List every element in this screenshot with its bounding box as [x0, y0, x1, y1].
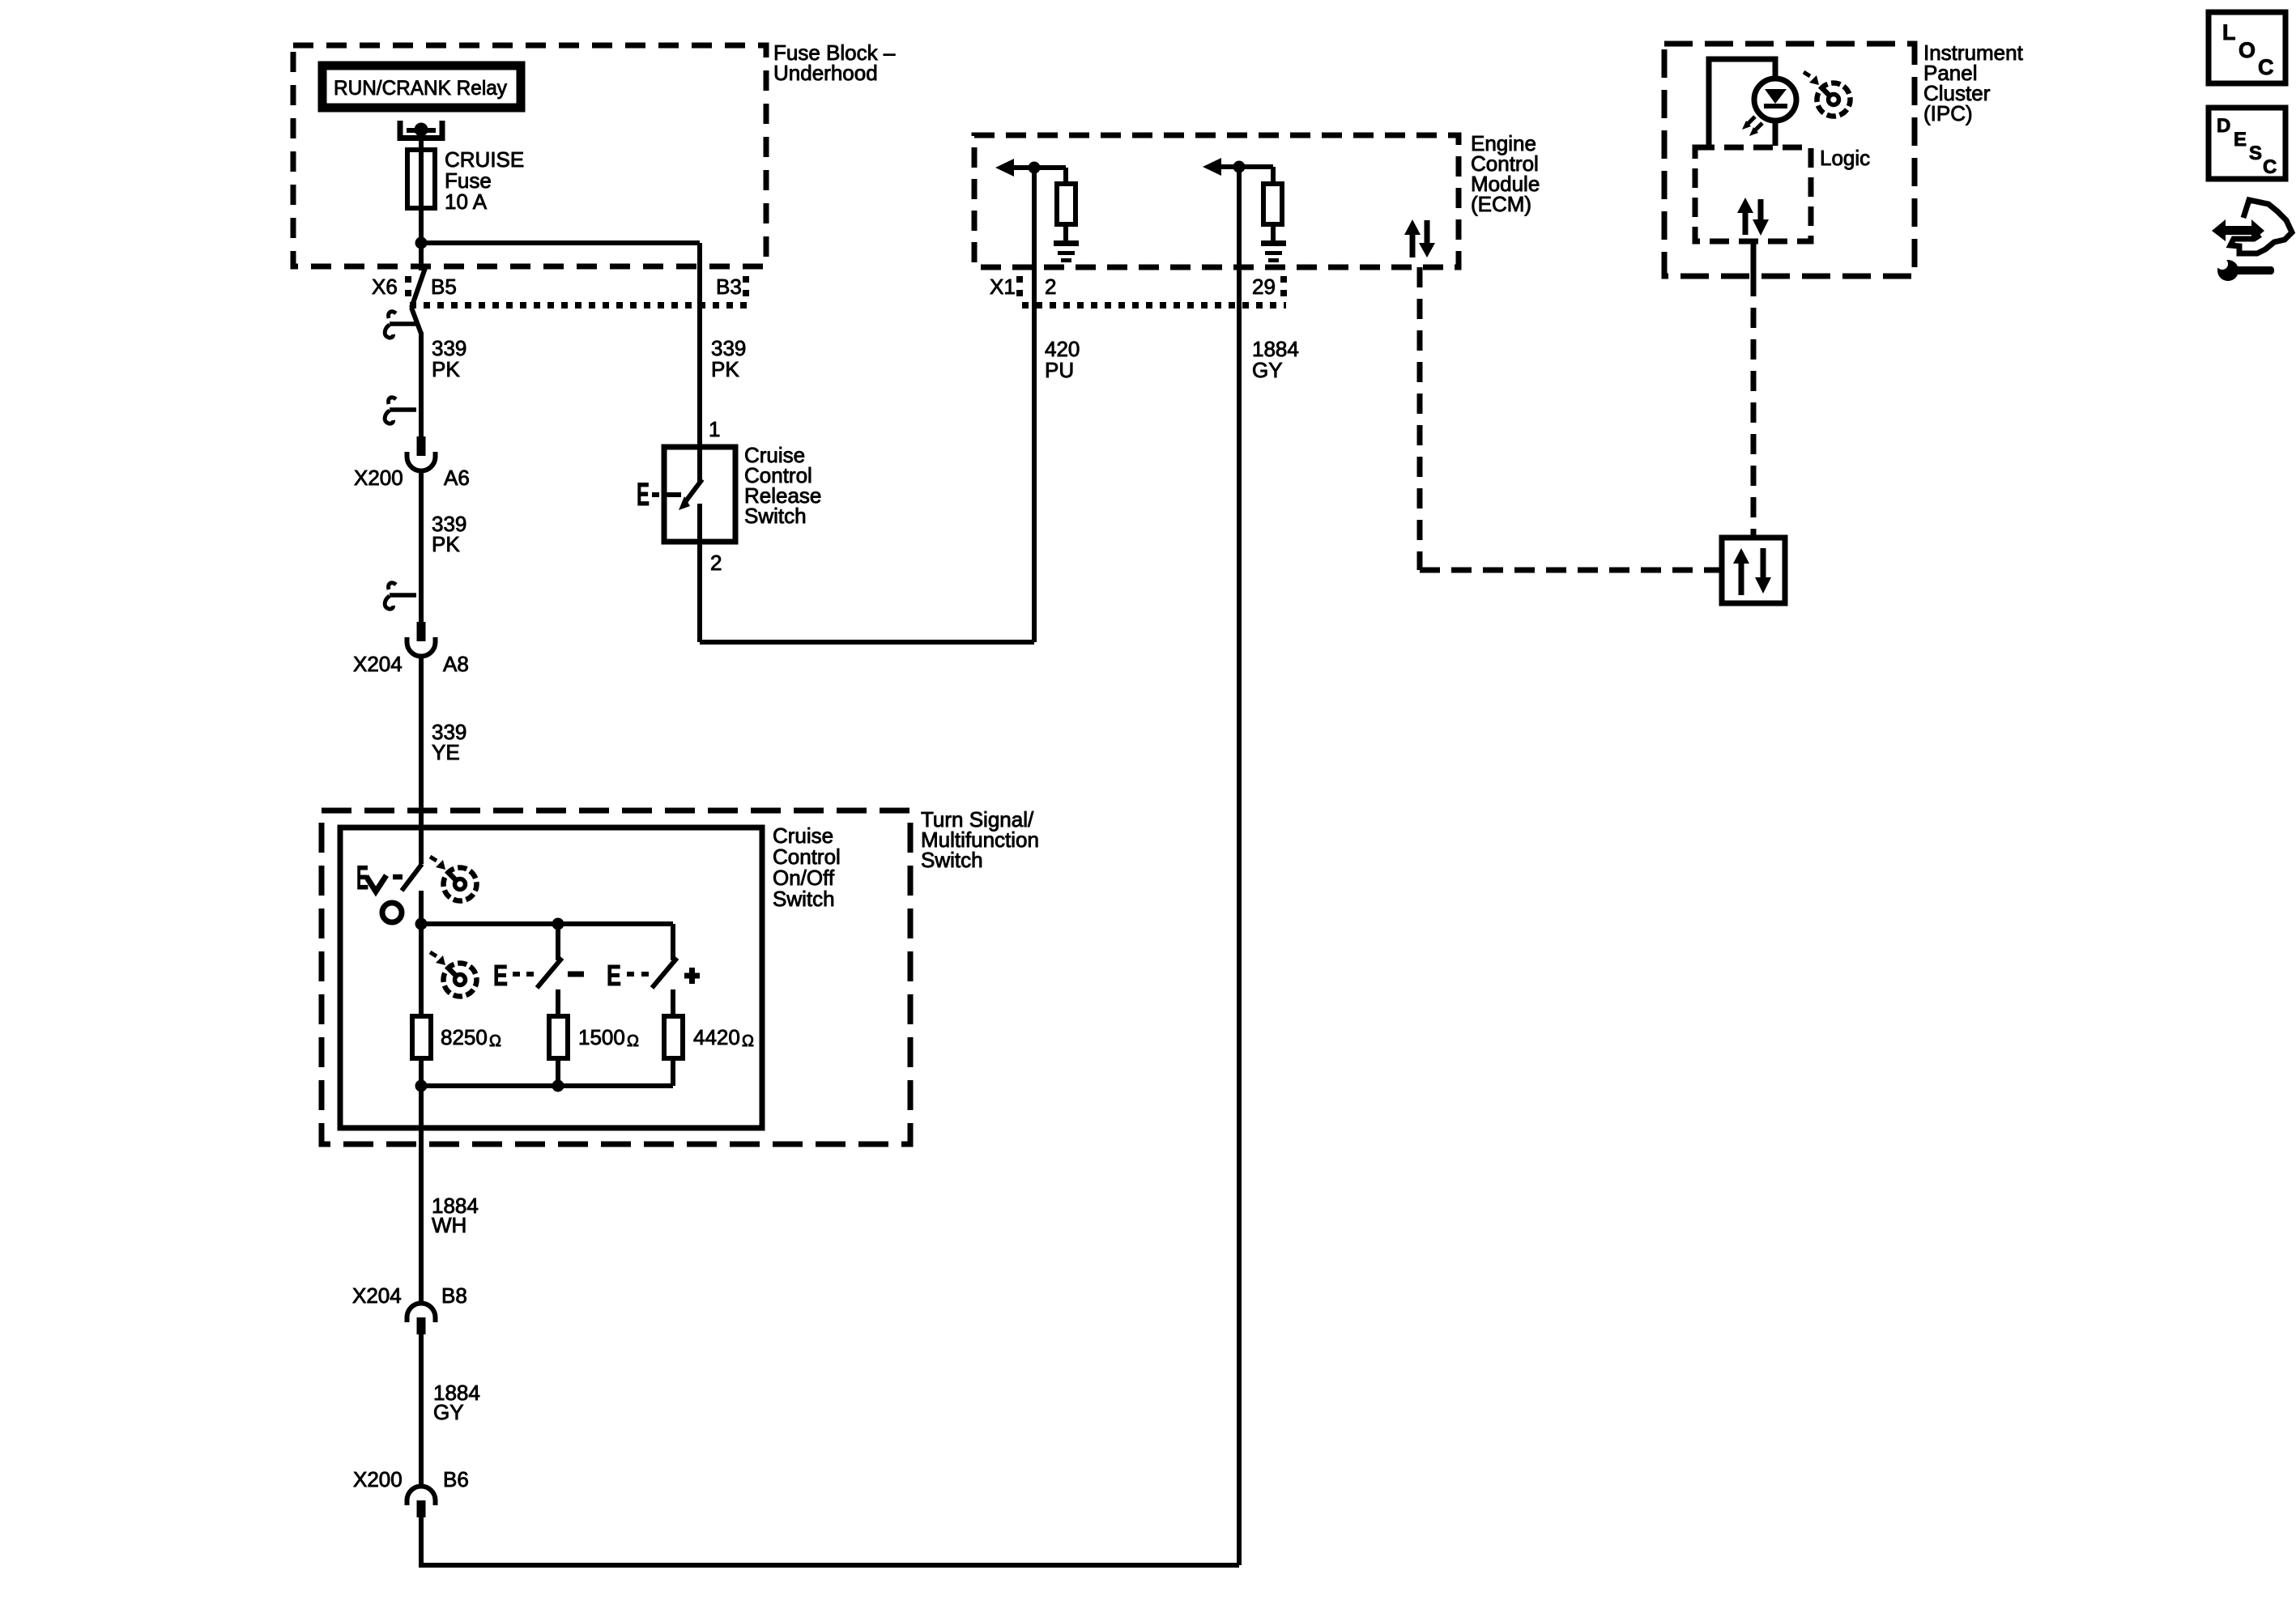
node bottom rail mid junction: [552, 1080, 564, 1092]
switch resume branch corner: [671, 924, 675, 960]
minus sign: [568, 972, 584, 977]
wire B3 drop 339 PK: [697, 243, 702, 482]
connector X200 B6 cup: [407, 1487, 436, 1518]
svg-text:Switch: Switch: [744, 504, 807, 528]
wire bottom rail: [421, 1083, 673, 1088]
node top rail mid junction: [552, 918, 564, 930]
E actuator line: [664, 492, 681, 497]
svg-text:Ω: Ω: [627, 1032, 639, 1050]
svg-text:E: E: [607, 959, 621, 992]
svg-text:RUN/CRANK Relay: RUN/CRANK Relay: [334, 77, 507, 100]
wire IPC internal: [1709, 59, 1775, 146]
wire set branch lower: [556, 989, 560, 1016]
wire 1884 GY left: [419, 1334, 424, 1486]
node ECM pin29 junction: [1233, 161, 1246, 173]
svg-text:8250: 8250: [441, 1025, 488, 1049]
LED light emission arrows: [1746, 117, 1755, 126]
gauge icon on/off top: [430, 857, 479, 903]
actuator dashes resume: [627, 972, 634, 977]
fuse holder terminals: [400, 121, 442, 138]
wire 420 PU: [1032, 168, 1037, 642]
svg-text:YE: YE: [432, 740, 460, 764]
LOC reference box: [2209, 12, 2285, 83]
node ECM pin2 junction: [1029, 162, 1041, 174]
node fuse output junction: [415, 237, 428, 249]
ground left: [1054, 240, 1079, 246]
svg-text:WH: WH: [432, 1213, 466, 1237]
svg-text:X6: X6: [372, 274, 398, 299]
logic serial arrows: [1743, 211, 1749, 235]
svg-text:X204: X204: [353, 652, 403, 676]
tools icon hand outline: [2230, 200, 2292, 253]
turn signal multifunction dashed box: [322, 811, 910, 1144]
wire 339 PK segment 2: [419, 470, 424, 622]
wire fuse feed: [419, 130, 424, 243]
svg-text:A6: A6: [444, 466, 470, 490]
svg-text:GY: GY: [433, 1400, 464, 1424]
gauge icon IPC: [1804, 72, 1852, 118]
wire bottom run: [421, 1517, 1239, 1565]
tools icon wrench: [2217, 260, 2238, 281]
ground right: [1261, 240, 1286, 246]
svg-text:Ω: Ω: [742, 1032, 754, 1050]
svg-text:1500: 1500: [578, 1025, 625, 1049]
connector X200 A6 cup: [407, 436, 436, 471]
relay K RUN/CRANK Relay box: [322, 66, 521, 108]
LED indicator: [1754, 79, 1796, 121]
wire main out of switch box: [419, 1086, 424, 1303]
serial data arrow box: [1722, 538, 1785, 603]
wire resume branch lower: [671, 989, 675, 1016]
resistor 1500: [549, 1016, 568, 1058]
svg-text:10 A: 10 A: [445, 189, 488, 214]
ECM serial data arrows: [1410, 227, 1416, 257]
svg-text:A8: A8: [443, 652, 469, 676]
switch set/coast branch: [556, 924, 560, 960]
splice hook above X200 A6: [385, 398, 416, 423]
svg-text:(ECM): (ECM): [1471, 192, 1531, 216]
splice hook above X204 A8: [385, 583, 416, 609]
serial data arrows in box: [1739, 562, 1744, 595]
wire 339 PK segment: [419, 332, 424, 436]
switch resume blade: [652, 958, 677, 988]
wire top rail: [421, 921, 673, 926]
svg-text:PK: PK: [432, 532, 460, 556]
svg-text:X200: X200: [353, 1467, 403, 1491]
resistor 4420: [664, 1016, 683, 1058]
svg-text:PK: PK: [711, 357, 739, 381]
svg-text:E: E: [493, 959, 508, 992]
resistor pull-up right: [1271, 167, 1276, 184]
switch blade release: [685, 479, 702, 502]
DESC reference box: [2209, 108, 2285, 179]
svg-text:X200: X200: [354, 466, 403, 490]
svg-text:Ω: Ω: [489, 1032, 501, 1050]
svg-text:29: 29: [1252, 274, 1276, 299]
svg-text:C: C: [2263, 156, 2277, 178]
connector X1 dotted row: [1016, 276, 1023, 304]
wire left main vertical (339 PK) top: [419, 243, 424, 270]
actuator dash on/off: [393, 874, 403, 880]
svg-text:4420: 4420: [693, 1025, 740, 1049]
svg-text:X1: X1: [990, 274, 1016, 299]
terminal slash at B5: [411, 268, 425, 308]
dashed line arrow box to IPC: [1751, 276, 1757, 538]
svg-text:Logic: Logic: [1820, 146, 1870, 170]
svg-text:E: E: [637, 477, 650, 513]
svg-text:B6: B6: [443, 1467, 469, 1491]
gauge icon set/coast: [430, 952, 479, 998]
node on/off junction left: [415, 918, 428, 930]
svg-text:2: 2: [710, 551, 722, 575]
resistor 8250: [412, 1016, 431, 1058]
svg-text:(IPC): (IPC): [1923, 101, 1973, 126]
svg-text:PU: PU: [1045, 358, 1074, 382]
svg-text:Switch: Switch: [921, 848, 983, 872]
svg-text:PK: PK: [432, 357, 460, 381]
svg-text:Underhood: Underhood: [773, 61, 878, 85]
connector X204 B8 cup: [407, 1304, 436, 1335]
wire on/off to resistor 8250: [419, 924, 424, 1016]
wire horizontal to 420 PU: [700, 640, 1034, 645]
dashed serial data line from ECM: [1417, 267, 1423, 570]
ECM dashed box: [974, 135, 1459, 267]
resistor pull-up left: [1063, 168, 1068, 184]
tools icon double arrow: [2212, 219, 2264, 241]
splice hook under B5: [385, 312, 416, 338]
wire junction to B3 drop: [421, 240, 700, 245]
wire 1884 GY right: [1237, 167, 1242, 1565]
connector X204 A8 cup: [407, 622, 436, 657]
svg-text:S: S: [2249, 143, 2262, 164]
wire logic to IPC edge: [1751, 241, 1757, 276]
svg-text:1: 1: [709, 417, 720, 441]
svg-text:O: O: [2238, 38, 2256, 62]
svg-text:X204: X204: [352, 1283, 402, 1308]
ECM left input arrow: [995, 159, 1014, 177]
wire pin2 down: [697, 504, 702, 642]
ECM right input arrow: [1203, 158, 1221, 176]
svg-text:Switch: Switch: [773, 887, 835, 911]
off position circle: [382, 903, 402, 922]
plus sign: [684, 973, 700, 979]
svg-text:B8: B8: [441, 1283, 467, 1308]
IPC dashed box: [1664, 44, 1915, 276]
switch set/coast blade: [537, 958, 562, 988]
actuator v arrowhead: [366, 875, 386, 891]
svg-text:L: L: [2222, 20, 2236, 45]
wire below on/off switch: [419, 891, 424, 924]
connector X6 dotted row: [405, 276, 411, 304]
logic dashed box: [1695, 147, 1811, 241]
svg-text:B5: B5: [431, 274, 457, 299]
node bottom rail left junction: [415, 1080, 428, 1092]
cruise on/off solid box: [340, 828, 762, 1128]
fuse F CRUISE 10A: [407, 150, 435, 208]
svg-text:B3: B3: [716, 274, 742, 299]
svg-text:GY: GY: [1252, 358, 1283, 382]
svg-text:C: C: [2258, 55, 2274, 79]
svg-text:D: D: [2217, 115, 2230, 137]
fuse block underhood dashed box: [293, 45, 766, 266]
switch S Cruise Control Release Switch box: [664, 447, 735, 542]
actuator dashes set/coast: [513, 972, 520, 977]
wire 339 YE: [419, 656, 424, 864]
svg-text:E: E: [2234, 129, 2247, 151]
switch on/off blade: [402, 864, 422, 891]
svg-text:2: 2: [1045, 274, 1056, 299]
